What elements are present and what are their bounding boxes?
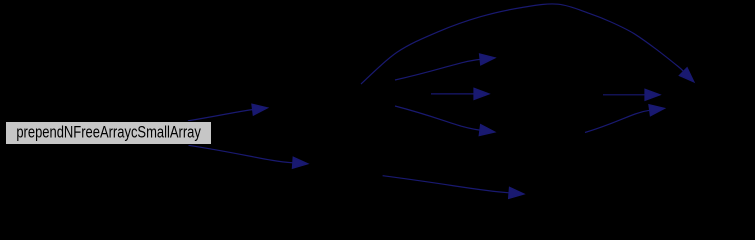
svg-text:prependNFreeArraycSmallArray: prependNFreeArraycSmallArray [16, 124, 201, 142]
